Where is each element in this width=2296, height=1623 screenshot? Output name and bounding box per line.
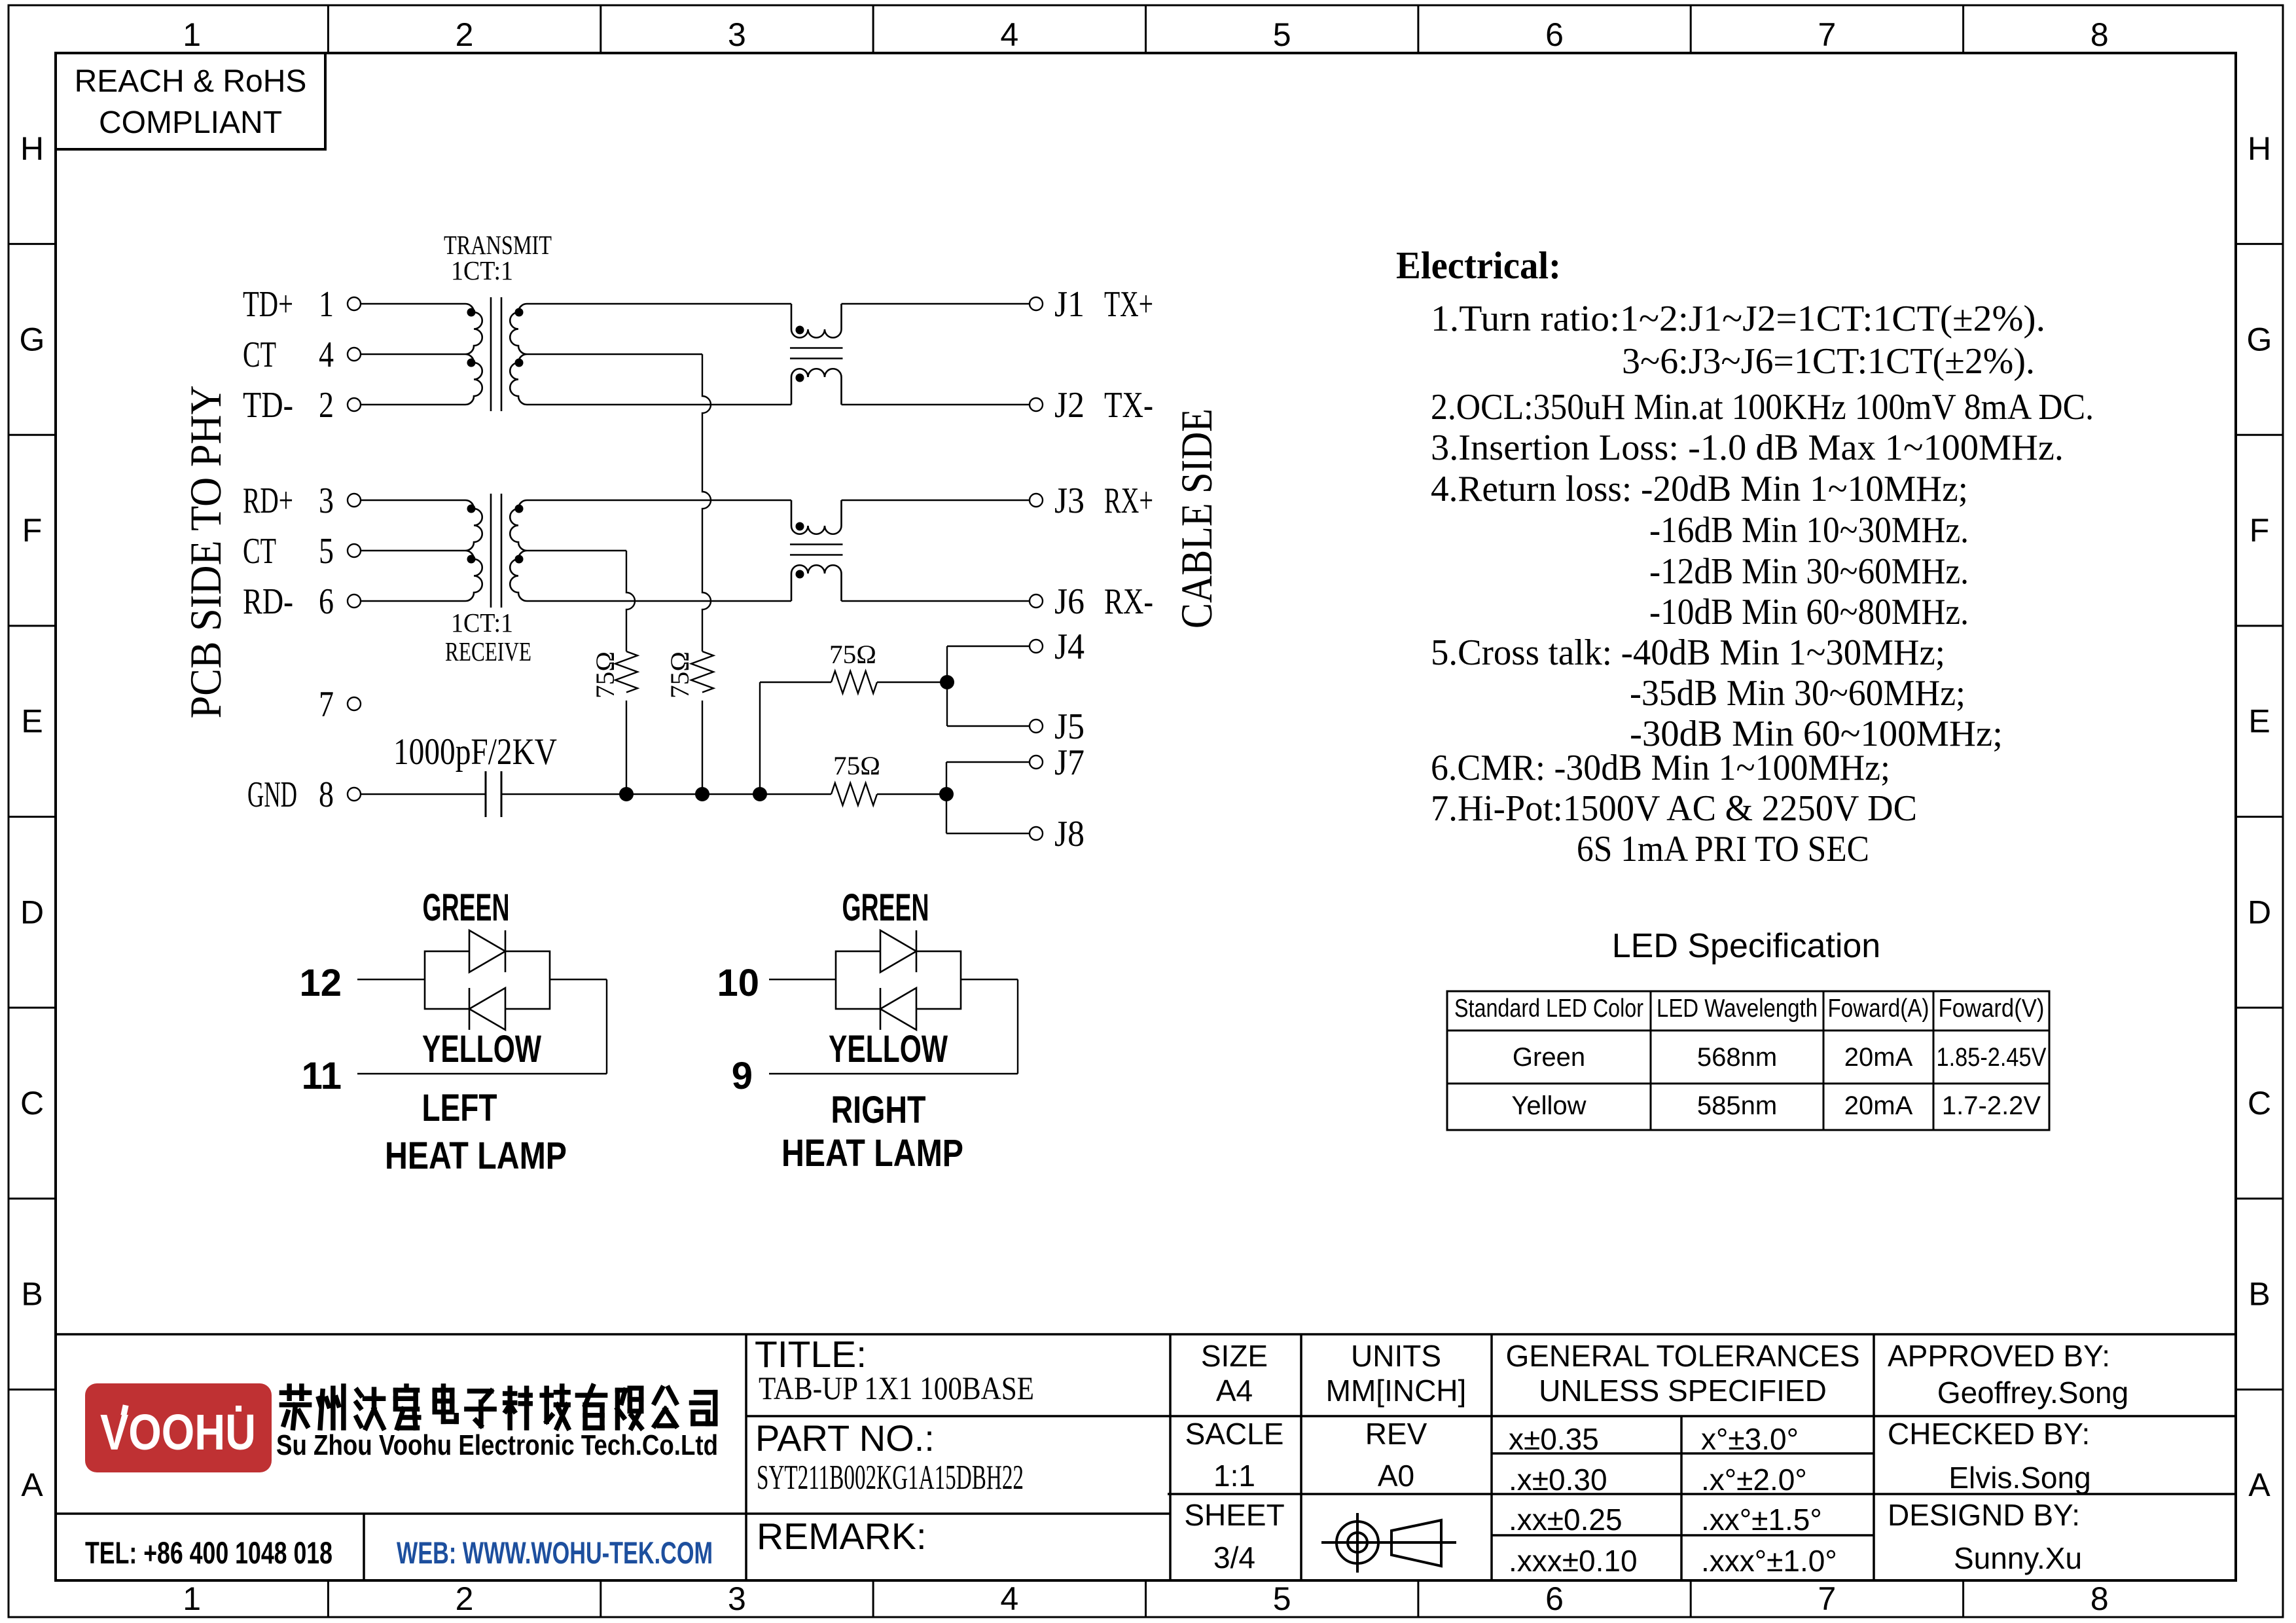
T1 (transmit) primary dot top: [467, 308, 476, 317]
wire GND junction up to R3: [759, 682, 761, 794]
wire to J4: [947, 646, 1030, 647]
terminal J1: [1030, 297, 1043, 310]
wire pin2 to T1: [361, 404, 465, 405]
svg-text:YELLOW: YELLOW: [422, 1028, 541, 1070]
resistor R4 75ohm horizontal: [831, 783, 877, 805]
svg-text:.xx°±1.5°: .xx°±1.5°: [1701, 1503, 1822, 1537]
svg-text:75Ω: 75Ω: [665, 651, 694, 699]
svg-text:1CT:1: 1CT:1: [451, 608, 513, 638]
svg-text:RD+: RD+: [243, 481, 293, 521]
GND bus wire: [501, 793, 831, 795]
svg-text:20mA: 20mA: [1844, 1091, 1913, 1120]
capacitor C1 1000pF/2KV: [485, 771, 487, 817]
svg-text:585nm: 585nm: [1697, 1091, 1777, 1120]
svg-text:HEAT LAMP: HEAT LAMP: [385, 1135, 567, 1177]
svg-text:J4: J4: [1054, 627, 1085, 667]
svg-text:.xxx°±1.0°: .xxx°±1.0°: [1701, 1544, 1837, 1578]
svg-text:3~6:J3~J6=1CT:1CT(±2%).: 3~6:J3~J6=1CT:1CT(±2%).: [1622, 341, 2035, 382]
svg-text:YELLOW: YELLOW: [829, 1028, 948, 1070]
svg-text:6S 1mA PRI TO SEC: 6S 1mA PRI TO SEC: [1577, 829, 1869, 869]
LED green (right): [880, 930, 916, 972]
wire L1 to J1: [842, 303, 1030, 304]
wire to R3: [760, 682, 831, 683]
svg-text:TD+: TD+: [243, 284, 293, 325]
wire T1 sec bot to L1: [527, 404, 791, 405]
svg-text:C: C: [20, 1085, 44, 1122]
svg-text:TX+: TX+: [1104, 284, 1153, 325]
terminal J8: [1030, 827, 1043, 840]
junction R2/GND: [695, 787, 709, 801]
svg-text:SHEET: SHEET: [1184, 1498, 1284, 1532]
wire T2 sec bot to L2: [527, 600, 791, 602]
svg-text:75Ω: 75Ω: [833, 751, 880, 780]
svg-text:RIGHT: RIGHT: [831, 1089, 926, 1131]
svg-text:Su Zhou Voohu Electronic Tech.: Su Zhou Voohu Electronic Tech.Co.Ltd: [276, 1429, 718, 1461]
svg-text:LED Wavelength: LED Wavelength: [1657, 994, 1818, 1023]
wire box to right: [550, 979, 607, 980]
T2 (receive) primary winding: [465, 500, 482, 601]
svg-text:A: A: [2248, 1467, 2270, 1503]
pin 4 CT terminal: [348, 348, 361, 361]
svg-text:F: F: [2250, 512, 2270, 549]
wire right vertical: [1017, 979, 1018, 1074]
T2 (receive) secondary winding: [510, 500, 527, 601]
svg-text:568nm: 568nm: [1697, 1043, 1777, 1072]
svg-text:RECEIVE: RECEIVE: [445, 636, 531, 666]
svg-text:APPROVED BY:: APPROVED BY:: [1888, 1339, 2110, 1373]
svg-text:.xxx±0.10: .xxx±0.10: [1509, 1544, 1638, 1578]
svg-text:REACH & RoHS: REACH & RoHS: [75, 64, 307, 99]
wire L2 to J3: [842, 500, 1030, 501]
wire pin8 to C1: [361, 793, 486, 795]
resistor R2 75ohm vertical: [691, 651, 713, 693]
pin 1 TD+ terminal: [348, 297, 361, 310]
wire pin 9: [769, 1073, 1018, 1074]
svg-text:75Ω: 75Ω: [590, 651, 620, 699]
wire L2 to J6: [842, 600, 1030, 602]
svg-text:SIZE: SIZE: [1201, 1339, 1268, 1373]
svg-text:x°±3.0°: x°±3.0°: [1701, 1422, 1799, 1456]
svg-text:D: D: [20, 894, 44, 930]
wire L1 to J2: [842, 404, 1030, 405]
svg-text:CT: CT: [243, 335, 276, 375]
svg-text:7.Hi-Pot:1500V AC & 2250V DC: 7.Hi-Pot:1500V AC & 2250V DC: [1431, 788, 1917, 829]
svg-text:-12dB Min 30~60MHz.: -12dB Min 30~60MHz.: [1649, 551, 1969, 592]
wire T2 sec top to L2: [527, 500, 791, 501]
svg-text:B: B: [2248, 1276, 2270, 1313]
terminal J3: [1030, 494, 1043, 507]
svg-text:SYT211B002KG1A15DBH22: SYT211B002KG1A15DBH22: [757, 1459, 1024, 1497]
svg-text:5: 5: [1273, 1580, 1291, 1617]
svg-text:1000pF/2KV: 1000pF/2KV: [393, 731, 557, 773]
svg-text:4: 4: [1000, 16, 1018, 53]
column boundary ticks top/bottom margins: [327, 5, 329, 53]
terminal J7: [1030, 756, 1043, 769]
wire J7/J8 vertical: [946, 762, 947, 833]
svg-text:DESIGND BY:: DESIGND BY:: [1888, 1498, 2080, 1532]
wire pin1 to T1: [361, 303, 465, 304]
svg-text:CABLE SIDE: CABLE SIDE: [1172, 409, 1221, 629]
svg-text:9: 9: [732, 1055, 753, 1097]
svg-text:GENERAL TOLERANCES: GENERAL TOLERANCES: [1505, 1339, 1859, 1373]
junction R1/GND: [619, 787, 634, 801]
svg-text:J3: J3: [1054, 481, 1085, 521]
GND bus wire to J7/J8 junction: [877, 793, 946, 795]
svg-text:J7: J7: [1054, 742, 1085, 783]
svg-text:7: 7: [1818, 16, 1837, 53]
L1 (TX) dot bottom: [796, 374, 804, 382]
svg-text:x±0.35: x±0.35: [1509, 1422, 1599, 1456]
L1 (TX) top winding: [791, 304, 842, 338]
svg-text:J5: J5: [1054, 706, 1085, 747]
svg-text:3.Insertion Loss: -1.0 dB Max: 3.Insertion Loss: -1.0 dB Max 1~100MHz.: [1431, 428, 2064, 468]
company name (CJK): [281, 1386, 715, 1428]
svg-text:-16dB Min 10~30MHz.: -16dB Min 10~30MHz.: [1649, 510, 1969, 551]
T1 (transmit) secondary winding: [510, 304, 527, 405]
svg-text:LED Specification: LED Specification: [1612, 927, 1880, 965]
svg-text:2: 2: [456, 1580, 474, 1617]
T1 (transmit) secondary dot bottom: [515, 359, 524, 367]
svg-text:GREEN: GREEN: [842, 886, 929, 929]
wire to J8: [946, 833, 1030, 834]
svg-text:A: A: [21, 1467, 43, 1503]
svg-text:.xx±0.25: .xx±0.25: [1509, 1503, 1623, 1537]
pin 6 RD- terminal: [348, 594, 361, 608]
pin 8 GND terminal: [348, 788, 361, 801]
wire to J5: [947, 725, 1030, 727]
svg-text:6: 6: [1545, 16, 1564, 53]
T1 (transmit) primary dot bottom: [467, 359, 476, 367]
svg-text:E: E: [2248, 703, 2270, 740]
svg-text:J6: J6: [1054, 581, 1085, 622]
svg-text:6: 6: [1545, 1580, 1564, 1617]
wire J4/J5 vertical: [946, 646, 948, 726]
svg-text:TEL: +86 400 1048 018: TEL: +86 400 1048 018: [85, 1535, 332, 1570]
svg-text:3: 3: [728, 16, 746, 53]
L2 (RX) dot top: [796, 522, 804, 531]
svg-text:5.Cross talk: -40dB Min 1~30MH: 5.Cross talk: -40dB Min 1~30MHz;: [1431, 632, 1945, 673]
T1 (transmit) core line 2: [501, 297, 503, 411]
row boundary ticks left/right margins: [9, 243, 56, 245]
svg-text:PART NO.:: PART NO.:: [755, 1417, 935, 1459]
REACH & RoHS COMPLIANT box: [56, 53, 325, 149]
svg-text:10: 10: [717, 962, 759, 1004]
svg-text:Green: Green: [1513, 1043, 1585, 1072]
svg-text:Sunny.Xu: Sunny.Xu: [1954, 1541, 2082, 1575]
wire T2 CT vertical with hop: [626, 551, 635, 651]
wire pin6 to T2: [361, 600, 465, 602]
svg-text:Foward(V): Foward(V): [1939, 994, 2045, 1023]
svg-text:UNLESS SPECIFIED: UNLESS SPECIFIED: [1539, 1374, 1827, 1408]
svg-text:4: 4: [1000, 1580, 1018, 1617]
terminal J5: [1030, 720, 1043, 733]
wire pin5 to T2 CT: [361, 550, 465, 551]
svg-text:REV: REV: [1365, 1417, 1427, 1451]
svg-text:5: 5: [319, 531, 334, 572]
T2 (receive) secondary dot bottom: [515, 555, 524, 564]
svg-text:RX-: RX-: [1104, 581, 1153, 622]
L2 (RX) dot bottom: [796, 570, 804, 579]
svg-text:J2: J2: [1054, 385, 1085, 426]
junction J7/J8: [939, 787, 954, 801]
svg-text:H: H: [20, 130, 44, 167]
svg-text:Yellow: Yellow: [1511, 1091, 1586, 1120]
LED green (left): [469, 930, 505, 972]
svg-text:E: E: [21, 703, 43, 740]
svg-text:75Ω: 75Ω: [829, 640, 876, 669]
resistor R3 75ohm horizontal: [831, 671, 877, 693]
svg-text:8: 8: [2090, 16, 2109, 53]
svg-text:G: G: [2247, 321, 2272, 357]
svg-text:Electrical:: Electrical:: [1396, 244, 1561, 287]
wire T1 sec top to L1: [527, 303, 791, 304]
svg-text:J8: J8: [1054, 814, 1085, 854]
junction R3 branch/GND: [753, 787, 767, 801]
terminal J2: [1030, 398, 1043, 411]
svg-text:.x±0.30: .x±0.30: [1509, 1463, 1607, 1497]
pin 5 CT terminal: [348, 544, 361, 557]
svg-text:SACLE: SACLE: [1185, 1417, 1284, 1451]
pin 3 RD+ terminal: [348, 494, 361, 507]
LED yellow (right): [880, 988, 916, 1030]
wire T1 CT tap: [527, 354, 702, 355]
svg-text:Elvis.Song: Elvis.Song: [1948, 1461, 2090, 1495]
L1 (TX) bottom winding: [791, 369, 842, 405]
svg-text:MM[INCH]: MM[INCH]: [1326, 1374, 1467, 1408]
svg-text:COMPLIANT: COMPLIANT: [99, 105, 282, 140]
pin 2 TD- terminal: [348, 398, 361, 411]
L2 (RX) top winding: [791, 500, 842, 534]
wire R1 to GND bus: [626, 701, 627, 794]
svg-text:LEFT: LEFT: [422, 1087, 497, 1129]
svg-text:J1: J1: [1054, 284, 1085, 325]
svg-text:1CT:1: 1CT:1: [451, 255, 513, 285]
T2 (receive) primary dot bottom: [467, 555, 476, 564]
svg-text:REMARK:: REMARK:: [757, 1516, 927, 1558]
L1 (TX) dot top: [796, 326, 804, 335]
svg-text:D: D: [2248, 894, 2271, 930]
svg-text:-35dB Min 30~60MHz;: -35dB Min 30~60MHz;: [1630, 673, 1965, 714]
svg-text:UNITS: UNITS: [1351, 1339, 1441, 1373]
svg-text:1: 1: [183, 1580, 201, 1617]
T2 (receive) core line 1: [490, 494, 492, 608]
svg-text:6.CMR: -30dB Min 1~100MHz;: 6.CMR: -30dB Min 1~100MHz;: [1431, 748, 1890, 788]
svg-text:4.Return loss: -20dB Min 1~10M: 4.Return loss: -20dB Min 1~10MHz;: [1431, 469, 1968, 509]
wire pin3 to T2: [361, 500, 465, 501]
wire R2 to GND bus: [702, 701, 703, 794]
svg-text:PCB SIDE TO PHY: PCB SIDE TO PHY: [181, 386, 230, 719]
pin 7 terminal: [348, 697, 361, 710]
svg-text:B: B: [21, 1276, 43, 1313]
svg-text:4: 4: [319, 335, 334, 375]
svg-text:20mA: 20mA: [1844, 1043, 1913, 1072]
L2 (RX) core line 1: [790, 543, 843, 545]
T1 (transmit) secondary dot top: [515, 308, 524, 317]
T1 (transmit) core line 1: [490, 297, 492, 411]
svg-text:TD-: TD-: [243, 385, 293, 426]
svg-text:1:1: 1:1: [1213, 1459, 1255, 1493]
L2 (RX) core line 2: [790, 554, 843, 556]
svg-text:7: 7: [319, 684, 334, 725]
L1 (TX) core line 2: [790, 357, 843, 359]
svg-text:1: 1: [319, 284, 334, 325]
svg-text:H: H: [2248, 130, 2271, 167]
wire to J7: [946, 761, 1030, 763]
svg-text:1.Turn ratio:1~2:J1~J2=1CT:1CT: 1.Turn ratio:1~2:J1~J2=1CT:1CT(±2%).: [1431, 299, 2045, 339]
svg-text:5: 5: [1273, 16, 1291, 53]
svg-text:A4: A4: [1216, 1374, 1253, 1408]
svg-text:TX-: TX-: [1104, 385, 1153, 426]
svg-text:WEB: WWW.WOHU-TEK.COM: WEB: WWW.WOHU-TEK.COM: [397, 1535, 713, 1570]
svg-text:12: 12: [299, 962, 342, 1004]
wire right vertical: [606, 979, 607, 1074]
svg-text:RD-: RD-: [243, 581, 293, 622]
svg-text:CHECKED BY:: CHECKED BY:: [1888, 1417, 2090, 1451]
svg-text:G: G: [20, 321, 45, 357]
svg-text:1.85-2.45V: 1.85-2.45V: [1937, 1043, 2047, 1072]
terminal J6: [1030, 594, 1043, 608]
svg-text:C: C: [2248, 1085, 2271, 1122]
svg-text:GREEN: GREEN: [423, 886, 510, 929]
svg-text:8: 8: [319, 775, 334, 815]
svg-text:1.7-2.2V: 1.7-2.2V: [1942, 1091, 2041, 1120]
T1 (transmit) primary winding: [465, 304, 482, 405]
resistor R1 75ohm vertical: [615, 651, 637, 693]
wire R3 to J4/J5 junction: [877, 682, 947, 683]
svg-text:GND: GND: [247, 775, 297, 815]
svg-text:A0: A0: [1378, 1459, 1414, 1493]
wire T2 CT tap: [527, 550, 626, 551]
svg-text:3: 3: [319, 481, 334, 521]
svg-text:3/4: 3/4: [1213, 1541, 1255, 1575]
svg-text:F: F: [22, 512, 43, 549]
wire pin4 to T1 CT: [361, 354, 465, 355]
wire box to right: [961, 979, 1018, 980]
svg-text:HEAT LAMP: HEAT LAMP: [781, 1132, 963, 1175]
svg-text:2: 2: [319, 385, 334, 426]
svg-text:-10dB Min 60~80MHz.: -10dB Min 60~80MHz.: [1649, 592, 1969, 632]
T2 (receive) core line 2: [501, 494, 503, 608]
junction J4/J5: [940, 675, 954, 689]
L1 (TX) core line 1: [790, 347, 843, 349]
wire T1 CT vertical with hops: [702, 354, 711, 651]
svg-text:TAB-UP 1X1 100BASE: TAB-UP 1X1 100BASE: [759, 1370, 1034, 1406]
L2 (RX) bottom winding: [791, 565, 842, 601]
svg-text:.x°±2.0°: .x°±2.0°: [1701, 1463, 1807, 1497]
T2 (receive) primary dot top: [467, 505, 476, 513]
svg-text:8: 8: [2090, 1580, 2109, 1617]
svg-text:1: 1: [183, 16, 201, 53]
svg-text:6: 6: [319, 581, 334, 622]
VOOHU logo red box: [85, 1383, 272, 1472]
svg-text:2: 2: [456, 16, 474, 53]
svg-text:2.OCL:350uH Min.at 100KHz 100m: 2.OCL:350uH Min.at 100KHz 100mV 8mA DC.: [1431, 387, 2094, 428]
wire pin 10: [769, 979, 836, 980]
wire pin 12: [357, 979, 425, 980]
T2 (receive) secondary dot top: [515, 505, 524, 513]
svg-text:Foward(A): Foward(A): [1828, 994, 1929, 1023]
svg-text:Geoffrey.Song: Geoffrey.Song: [1937, 1376, 2128, 1410]
wire pin 11: [357, 1073, 607, 1074]
svg-text:7: 7: [1818, 1580, 1837, 1617]
svg-text:RX+: RX+: [1104, 481, 1153, 521]
LED yellow (left): [469, 988, 505, 1030]
svg-text:Standard LED Color: Standard LED Color: [1454, 994, 1643, 1023]
svg-text:3: 3: [728, 1580, 746, 1617]
svg-text:11: 11: [302, 1055, 342, 1097]
svg-text:CT: CT: [243, 531, 276, 572]
terminal J4: [1030, 640, 1043, 653]
third angle projection symbol: [1336, 1522, 1378, 1563]
title block lines: [56, 1333, 2236, 1336]
